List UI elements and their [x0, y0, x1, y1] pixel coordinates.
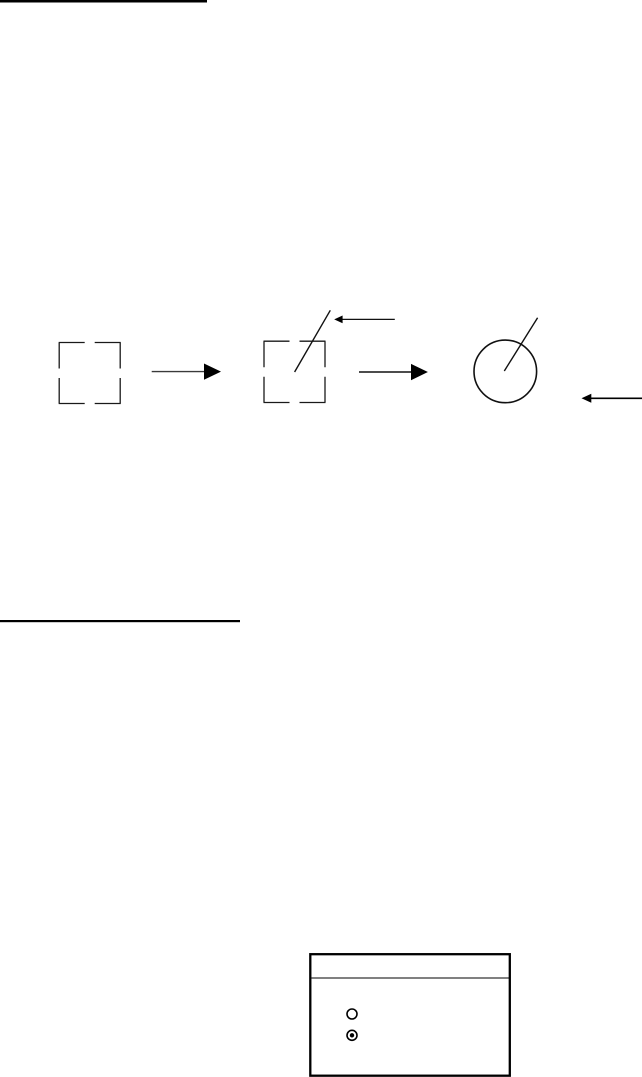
top heading rule	[0, 0, 207, 3]
dashed selection box 2 (middle)	[264, 341, 326, 402]
arrow 1 (right-pointing, between box1 and box2)	[152, 364, 221, 380]
dialog title divider line	[312, 977, 510, 979]
circle (grip/selected point)	[474, 340, 537, 403]
arrow 2 (right-pointing, between box2 and circle)	[359, 364, 428, 380]
small left-pointing arrow (points at slash tip)	[334, 316, 395, 324]
dashed selection box 1 (left)	[59, 343, 121, 404]
radio button (selected)	[347, 1030, 357, 1040]
slash (pick line) from circle centre	[504, 318, 537, 371]
dialog box frame	[310, 954, 510, 1075]
small left-pointing arrow at right edge (cut off)	[582, 394, 642, 403]
radio button (unselected)	[347, 1009, 357, 1019]
mid-page heading rule	[0, 620, 240, 622]
slash (pick line) through box 2	[295, 310, 331, 372]
